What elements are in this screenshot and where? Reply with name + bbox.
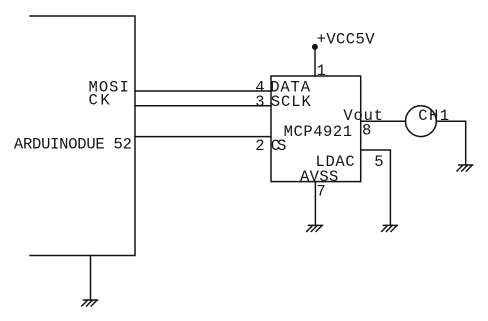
svg-text:CK: CK <box>89 92 111 110</box>
svg-text:7: 7 <box>316 183 325 201</box>
svg-text:SCLK: SCLK <box>271 93 312 111</box>
svg-text:CH1: CH1 <box>418 107 449 125</box>
svg-text:ARDUINODUE 52: ARDUINODUE 52 <box>14 136 132 154</box>
svg-text:Vout: Vout <box>343 107 383 125</box>
svg-text:+VCC5V: +VCC5V <box>317 31 376 49</box>
svg-text:MCP4921: MCP4921 <box>284 123 353 141</box>
svg-text:1: 1 <box>317 62 326 80</box>
svg-text:3: 3 <box>255 93 264 111</box>
svg-text:5: 5 <box>374 153 383 171</box>
svg-text:2: 2 <box>255 137 264 155</box>
